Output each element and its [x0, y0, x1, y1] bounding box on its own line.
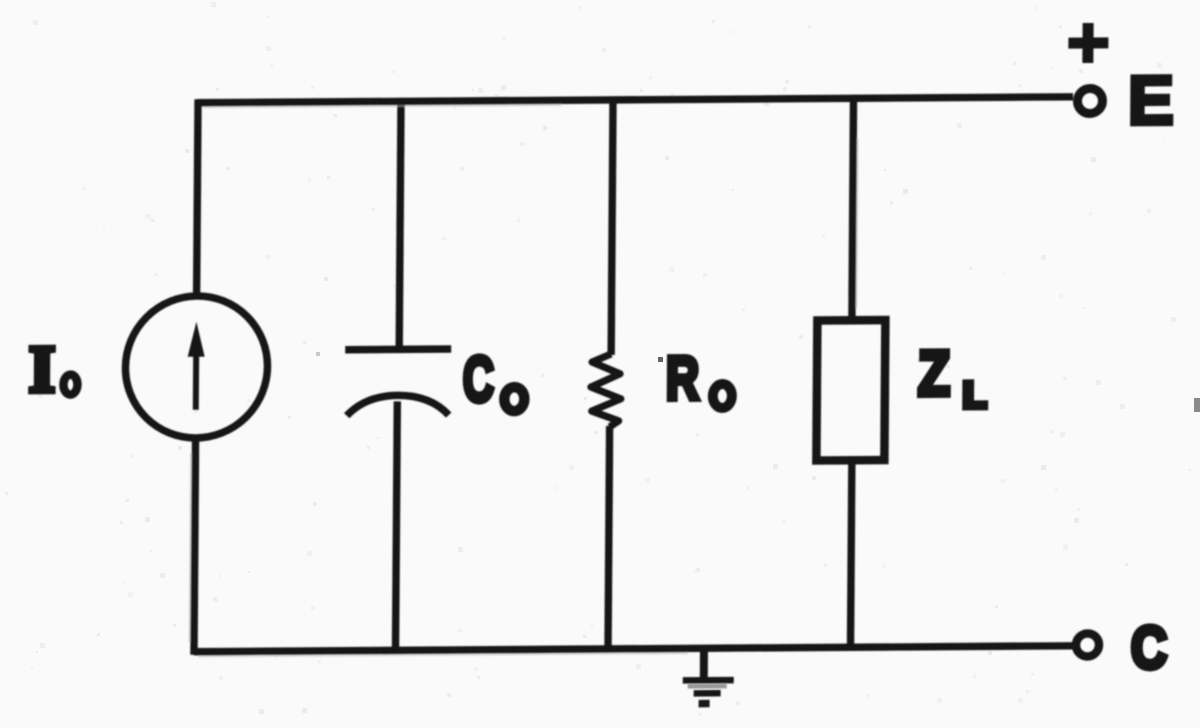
wire resistor bottom stub	[608, 426, 610, 652]
label ZL	[918, 339, 987, 416]
terminal C	[1076, 633, 1099, 656]
wire top bus	[197, 97, 1073, 103]
wire ZL bottom stub	[850, 464, 851, 650]
ground	[683, 649, 734, 707]
svg-text:R: R	[666, 344, 699, 412]
svg-text:C: C	[1131, 614, 1167, 681]
svg-text:Z: Z	[918, 339, 951, 409]
wire top bus gray fringe	[202, 105, 562, 107]
current source I0	[125, 295, 268, 438]
wire ZL top stub	[852, 95, 854, 319]
label I0	[29, 333, 78, 406]
svg-text:L: L	[963, 374, 987, 415]
terminal E	[1077, 88, 1102, 113]
svg-text:C: C	[463, 343, 495, 415]
label C0	[463, 343, 525, 415]
resistor R0	[591, 354, 622, 427]
svg-text:I: I	[29, 333, 56, 406]
wire resistor top stub	[611, 96, 613, 355]
label R0	[666, 344, 732, 412]
wire left vertical lower	[194, 437, 196, 655]
wire bottom bus gray fringe	[198, 653, 688, 656]
impedance ZL	[816, 320, 885, 460]
plus sign	[1068, 23, 1108, 63]
wire capacitor bottom stub	[395, 401, 397, 653]
wire left vertical gray fringe	[190, 453, 191, 643]
svg-text:E: E	[1128, 62, 1175, 139]
capacitor C0	[345, 349, 451, 416]
wire bottom bus	[194, 646, 1074, 652]
wire ZL stub gray fringe	[856, 138, 857, 308]
wire capacitor top stub	[399, 98, 401, 350]
wire left vertical upper	[197, 99, 198, 297]
